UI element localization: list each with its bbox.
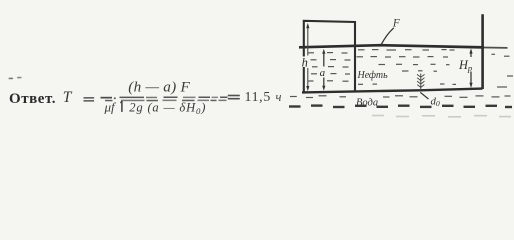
label a xyxy=(319,68,328,78)
water dashes row 2 bold xyxy=(289,106,512,107)
dimension a line xyxy=(323,53,325,87)
equals before result xyxy=(228,95,240,97)
radical mark (looks like 1) xyxy=(121,101,123,112)
dimension Hp line xyxy=(470,53,472,84)
right reservoir wall xyxy=(481,14,484,89)
leader from F to surface xyxy=(381,28,393,45)
svg-text:Нефть: Нефть xyxy=(357,70,389,81)
left shaft outline xyxy=(304,21,355,92)
stray scan dots top-left xyxy=(9,78,14,80)
svg-text:Т: Т xyxy=(63,89,73,106)
svg-text:ч: ч xyxy=(276,90,282,104)
dimension h line xyxy=(307,25,309,87)
fraction bar broken row B (radical vinculum) xyxy=(105,100,227,102)
svg-text:11,5: 11,5 xyxy=(245,89,271,104)
faint bleed-through dashes bottom xyxy=(372,116,511,117)
svg-text:Ответ.: Ответ. xyxy=(9,91,56,107)
dimension a arrowheads xyxy=(322,49,325,54)
water surface line (free surface) xyxy=(299,45,484,47)
water dashes row 1 (below bottom) xyxy=(290,96,511,98)
leading dash artifact xyxy=(101,97,113,99)
label h xyxy=(301,57,310,68)
orifice jet squiggle xyxy=(417,74,425,91)
svg-text:h: h xyxy=(302,55,308,69)
dashes right of reservoir wall xyxy=(492,54,514,87)
liquid dashes inside left shaft xyxy=(308,53,351,82)
equals after T xyxy=(84,97,95,99)
tank bottom line xyxy=(302,89,483,93)
fraction bar broken row A xyxy=(120,97,228,99)
dimension h arrowheads xyxy=(306,23,309,28)
svg-text:2g (a — δH0): 2g (a — δH0) xyxy=(129,101,206,117)
svg-text:a: a xyxy=(320,67,326,79)
svg-text:(h — a) F: (h — a) F xyxy=(128,78,190,95)
leader to d0 xyxy=(420,92,428,99)
dimension Hp arrowheads xyxy=(469,48,472,53)
liquid dashes in oil region xyxy=(357,50,457,85)
